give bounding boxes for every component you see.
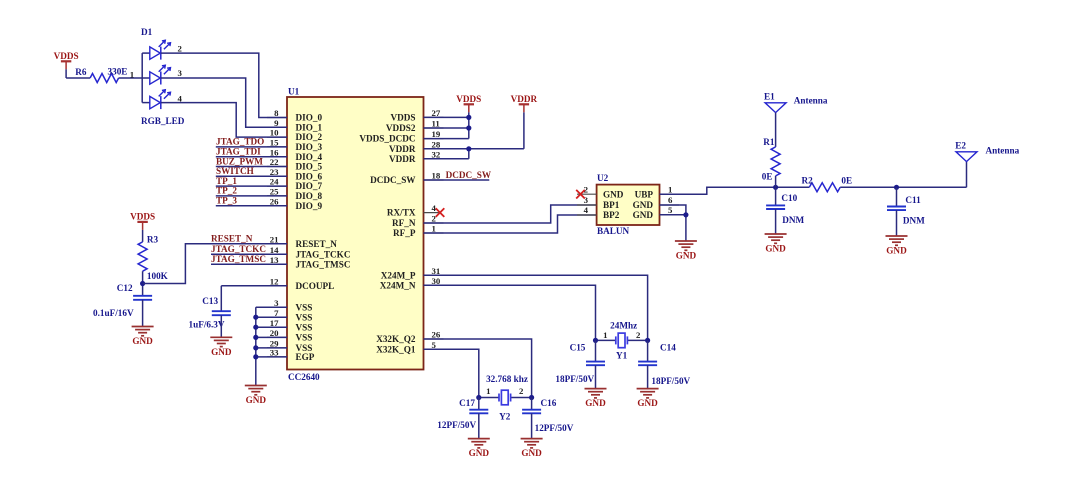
node VSS junction y347 — [253, 345, 258, 350]
svg-text:9: 9 — [274, 118, 279, 128]
capacitor C17 — [469, 410, 488, 414]
LED D1 element 2 — [150, 65, 171, 84]
wire X32K_Q2 to Y2 pin2 — [424, 339, 532, 398]
svg-text:3: 3 — [274, 298, 279, 308]
svg-text:RESET_N: RESET_N — [211, 234, 253, 244]
LED D1 element 1 — [150, 40, 171, 59]
wire C13 to ground — [220, 315, 222, 337]
node Y1 pin2 junction — [645, 338, 650, 343]
ground (C14) — [637, 389, 659, 409]
U1 pin 28 VDDR — [389, 139, 444, 154]
svg-text:VDDS: VDDS — [54, 51, 79, 61]
svg-text:RESET_N: RESET_N — [296, 239, 338, 249]
svg-text:1: 1 — [603, 330, 607, 340]
svg-text:1uF/6.3V: 1uF/6.3V — [189, 320, 225, 330]
U1 pin 18 DCDC_SW — [370, 171, 443, 186]
wire R3 to C12 junction — [142, 271, 144, 296]
node Y2 pin2 junction — [529, 395, 534, 400]
svg-text:DIO_2: DIO_2 — [296, 132, 323, 142]
wire Y2 row — [479, 397, 532, 399]
svg-text:28: 28 — [432, 139, 441, 149]
svg-text:8: 8 — [274, 108, 279, 118]
ground (C15) — [585, 389, 607, 409]
svg-text:23: 23 — [270, 167, 279, 177]
crystal Y2 32.768kHz — [499, 390, 511, 405]
svg-text:2: 2 — [519, 386, 524, 396]
node VDDS junction pin11 — [466, 125, 471, 130]
E1 labels — [764, 92, 828, 106]
svg-text:UBP: UBP — [635, 189, 654, 199]
U2 pin 6 GND — [633, 195, 679, 210]
svg-text:18PF/50V: 18PF/50V — [651, 376, 690, 386]
wire RF_P to balun BP2 — [424, 215, 597, 233]
node R1/C10 junction — [773, 185, 778, 190]
svg-text:GND: GND — [132, 336, 153, 346]
wire LED3 to DIO_2 — [161, 103, 287, 138]
node U2 pin5 junction — [683, 212, 688, 217]
svg-text:E2: E2 — [955, 141, 966, 151]
svg-text:R3: R3 — [147, 234, 159, 244]
C14 labels — [651, 343, 690, 386]
wire and net label JTAG_TCKC — [211, 244, 287, 254]
wire node to C10 — [775, 187, 777, 205]
svg-text:33: 33 — [270, 348, 279, 358]
U1 pin 33 EGP — [267, 348, 315, 363]
wire E1 to R1 — [775, 113, 777, 147]
svg-text:32: 32 — [432, 149, 441, 159]
svg-text:1: 1 — [432, 224, 436, 234]
U1 pin 5 X32K_Q1 — [376, 340, 443, 355]
svg-text:1: 1 — [668, 184, 672, 194]
node VSS junction y337 — [253, 335, 258, 340]
svg-text:5: 5 — [668, 205, 673, 215]
svg-text:3: 3 — [178, 68, 183, 78]
svg-text:VSS: VSS — [296, 302, 313, 312]
svg-text:DCDC_SW: DCDC_SW — [370, 175, 416, 185]
antenna E2 — [956, 152, 977, 162]
svg-text:VDDR: VDDR — [511, 94, 538, 104]
wire VSS bus — [256, 307, 287, 385]
svg-text:VDDS: VDDS — [456, 94, 481, 104]
C12 labels — [93, 283, 134, 318]
C17 labels — [437, 398, 476, 430]
wire C11 to ground — [896, 210, 898, 236]
wire R1 to node — [775, 176, 777, 187]
wire U2 pin5 to ground — [660, 215, 686, 241]
wire and net label TP_3 — [216, 196, 287, 206]
svg-text:4: 4 — [584, 205, 589, 215]
wire C10 to ground — [775, 209, 777, 234]
U1 pin 25 DIO_8 — [267, 187, 322, 202]
capacitor C10 — [766, 205, 785, 209]
svg-text:X24M_N: X24M_N — [380, 280, 416, 290]
svg-text:DIO_0: DIO_0 — [296, 113, 323, 123]
wire C16 to ground — [531, 413, 533, 438]
Y1 labels — [610, 321, 637, 361]
svg-text:30: 30 — [432, 276, 441, 286]
svg-text:DNM: DNM — [903, 215, 925, 225]
svg-text:R6: R6 — [75, 67, 87, 77]
svg-text:12PF/50V: 12PF/50V — [437, 420, 476, 430]
resistor R1 — [762, 137, 780, 182]
no-connect X on U2 pin 2 — [576, 190, 585, 199]
svg-text:TP_1: TP_1 — [216, 176, 237, 186]
capacitor C12 — [133, 296, 152, 300]
wire RF node R2 right to E2 — [840, 161, 966, 187]
svg-text:BP1: BP1 — [603, 200, 620, 210]
svg-text:DCOUPL: DCOUPL — [296, 281, 335, 291]
C15 labels — [555, 343, 594, 385]
svg-text:RF_N: RF_N — [392, 218, 416, 228]
svg-text:VDDS: VDDS — [390, 113, 415, 123]
ground (C13) — [210, 337, 232, 357]
node Y2 pin1 junction — [476, 395, 481, 400]
svg-text:DIO_1: DIO_1 — [296, 122, 323, 132]
svg-text:BP2: BP2 — [603, 210, 620, 220]
wire node to C11 — [896, 187, 898, 206]
wire and net label SWITCH — [216, 166, 287, 176]
U1 pin 4 RX/TX — [387, 203, 440, 218]
svg-text:VDDR: VDDR — [389, 144, 416, 154]
svg-text:DIO_4: DIO_4 — [296, 152, 323, 162]
svg-text:DIO_8: DIO_8 — [296, 191, 323, 201]
svg-text:R2: R2 — [802, 176, 814, 186]
wire U2 UBP to RF node — [660, 187, 810, 194]
wire U2 pin6 to pin5 — [660, 205, 686, 215]
wire VDDR rail pins 28/32 — [424, 112, 524, 158]
svg-text:1: 1 — [130, 70, 134, 80]
wire Y1 pin1 to C15 — [595, 340, 597, 361]
U1 pin 3 VSS — [267, 298, 312, 313]
ground (C11) — [886, 236, 908, 256]
U1 pin 1 RF_P — [393, 224, 443, 239]
node R3/C12/RESET_N junction — [140, 281, 145, 286]
svg-text:X32K_Q1: X32K_Q1 — [376, 344, 416, 354]
svg-text:24Mhz: 24Mhz — [610, 321, 637, 331]
node Y1 pin1 junction — [593, 338, 598, 343]
wire C15 to ground — [595, 365, 597, 388]
svg-text:14: 14 — [270, 245, 279, 255]
ground (C17) — [468, 439, 490, 459]
wire C17 to ground — [478, 413, 480, 438]
svg-text:Antenna: Antenna — [986, 145, 1020, 155]
svg-text:GND: GND — [676, 251, 697, 261]
LED D1 element 3 — [150, 90, 171, 109]
svg-text:26: 26 — [432, 330, 441, 340]
U1 pin 12 DCOUPL — [267, 276, 334, 291]
antenna E1 — [765, 103, 786, 113]
Y2 labels — [486, 374, 528, 421]
U1 pin 23 DIO_6 — [267, 167, 322, 182]
wire LED anode bracket — [142, 53, 150, 103]
svg-text:C17: C17 — [459, 398, 475, 408]
ground (VSS) — [245, 386, 267, 406]
svg-text:VDDR: VDDR — [389, 154, 416, 164]
svg-text:11: 11 — [432, 119, 440, 129]
svg-text:U1: U1 — [288, 86, 300, 96]
svg-text:VSS: VSS — [296, 322, 313, 332]
svg-text:DIO_6: DIO_6 — [296, 171, 323, 181]
svg-text:19: 19 — [432, 129, 441, 139]
U1 pin 15 DIO_3 — [267, 138, 322, 153]
wire Y2 pin2 to C16 — [531, 398, 533, 410]
capacitor C13 — [212, 311, 231, 315]
svg-text:JTAG_TDI: JTAG_TDI — [216, 147, 261, 157]
U2 pin 5 GND — [633, 205, 679, 220]
svg-text:0.1uF/16V: 0.1uF/16V — [93, 308, 134, 318]
svg-text:22: 22 — [270, 157, 279, 167]
svg-text:RGB_LED: RGB_LED — [141, 116, 185, 126]
U1 pin 11 VDDS2 — [386, 119, 444, 134]
svg-text:X24M_P: X24M_P — [381, 270, 416, 280]
node VSS junction y356 — [253, 354, 258, 359]
svg-text:C10: C10 — [781, 193, 797, 203]
crystal Y1 24Mhz — [616, 333, 628, 348]
wire Y1 row — [596, 339, 648, 341]
wire R6 to LED anode bracket — [119, 77, 143, 79]
svg-text:DIO_5: DIO_5 — [296, 162, 323, 172]
svg-text:1: 1 — [486, 386, 490, 396]
node VDDR junction pin28 — [466, 146, 471, 151]
svg-text:21: 21 — [270, 234, 279, 244]
svg-text:GND: GND — [633, 200, 654, 210]
U1 pin 24 DIO_7 — [267, 177, 322, 192]
wire Y1 pin2 to C14 — [647, 340, 649, 361]
svg-text:JTAG_TCKC: JTAG_TCKC — [296, 249, 351, 259]
IC U2 BALUN body — [597, 173, 660, 236]
svg-text:100K: 100K — [147, 271, 169, 281]
svg-text:32.768 khz: 32.768 khz — [486, 374, 528, 384]
svg-text:GND: GND — [633, 210, 654, 220]
U1 pin 9 DIO_1 — [267, 118, 322, 132]
svg-text:VSS: VSS — [296, 333, 313, 343]
svg-text:EGP: EGP — [296, 352, 315, 362]
svg-text:0E: 0E — [762, 172, 773, 182]
node VSS junction y327 — [253, 325, 258, 330]
power VDDR — [511, 94, 538, 112]
svg-text:DIO_7: DIO_7 — [296, 181, 323, 191]
svg-text:C12: C12 — [117, 283, 133, 293]
svg-text:12PF/50V: 12PF/50V — [535, 423, 574, 433]
U1 pin 7 VSS — [267, 308, 312, 323]
power VDDS (chip rail) — [456, 94, 481, 112]
svg-text:GND: GND — [521, 448, 542, 458]
U1 pin 19 VDDS_DCDC — [359, 129, 443, 144]
svg-text:6: 6 — [668, 195, 673, 205]
svg-text:SWITCH: SWITCH — [216, 166, 254, 176]
svg-text:15: 15 — [270, 138, 279, 148]
U2 pin 1 UBP — [635, 184, 679, 199]
wire and net label TP_2 — [216, 186, 287, 196]
svg-text:TP_3: TP_3 — [216, 196, 237, 206]
svg-text:JTAG_TCKC: JTAG_TCKC — [211, 244, 266, 254]
svg-text:4: 4 — [178, 93, 183, 103]
svg-text:GND: GND — [211, 347, 232, 357]
power VDDS (R3 branch) — [130, 212, 155, 242]
node VSS junction y317 — [253, 315, 258, 320]
svg-text:R1: R1 — [763, 137, 775, 147]
svg-text:JTAG_TMSC: JTAG_TMSC — [296, 259, 351, 269]
resistor R3 — [138, 234, 169, 280]
svg-text:24: 24 — [270, 177, 279, 187]
svg-text:Y1: Y1 — [616, 350, 628, 360]
wire and net label TP_1 — [216, 176, 287, 186]
C13 labels — [189, 296, 225, 329]
U2 pin 4 BP2 — [577, 205, 620, 220]
C10 labels — [781, 193, 804, 225]
svg-text:27: 27 — [432, 108, 441, 118]
svg-text:C16: C16 — [541, 398, 557, 408]
svg-text:4: 4 — [432, 203, 437, 213]
svg-text:C11: C11 — [905, 195, 921, 205]
wire and net label JTAG_TMSC — [211, 254, 287, 264]
wire X24M_N to Y1 pin1 — [424, 285, 596, 340]
svg-text:13: 13 — [270, 255, 279, 265]
node VDDS junction pin27 — [466, 115, 471, 120]
svg-text:17: 17 — [270, 318, 279, 328]
diode D1 RGB_LED labels — [141, 27, 185, 126]
svg-text:CC2640: CC2640 — [288, 372, 320, 382]
svg-text:0E: 0E — [841, 176, 852, 186]
svg-text:25: 25 — [270, 187, 279, 197]
U1 pin 26 DIO_9 — [267, 196, 322, 211]
capacitor C14 — [638, 362, 657, 366]
svg-text:2: 2 — [432, 214, 437, 224]
svg-text:3: 3 — [584, 195, 589, 205]
svg-text:DIO_9: DIO_9 — [296, 201, 323, 211]
svg-text:VSS: VSS — [296, 312, 313, 322]
U1 pin 2 RF_N — [392, 214, 443, 229]
wire and net label JTAG_TDO — [216, 137, 287, 147]
wire C12 to ground — [142, 300, 144, 327]
svg-text:26: 26 — [270, 196, 279, 206]
svg-text:GND: GND — [246, 395, 267, 405]
wire Y2 pin1 to C17 — [478, 398, 480, 410]
node C11 junction — [894, 185, 899, 190]
svg-text:7: 7 — [274, 308, 279, 318]
svg-text:GND: GND — [765, 244, 786, 254]
wire and net label BUZ_PWM — [216, 156, 287, 166]
wire LED2 to DIO_1 — [161, 78, 287, 127]
U1 pin 26 X32K_Q2 — [376, 330, 443, 345]
U1 pin 29 VSS — [267, 339, 312, 354]
wire and net label JTAG_TDI — [216, 147, 287, 157]
svg-text:C15: C15 — [570, 343, 586, 353]
svg-text:BALUN: BALUN — [597, 226, 630, 236]
svg-text:TP_2: TP_2 — [216, 186, 237, 196]
svg-text:2: 2 — [636, 330, 641, 340]
no-connect X on RX/TX — [436, 208, 445, 217]
svg-text:Y2: Y2 — [499, 411, 511, 421]
svg-text:GND: GND — [886, 246, 907, 256]
U1 pin 30 X24M_N — [380, 276, 444, 291]
svg-text:DCDC_SW: DCDC_SW — [446, 170, 492, 180]
svg-text:330E: 330E — [108, 67, 128, 77]
svg-text:DIO_3: DIO_3 — [296, 142, 323, 152]
C11 labels — [903, 195, 925, 225]
C16 labels — [535, 398, 574, 433]
U1 pin 10 DIO_2 — [267, 128, 322, 143]
U1 pin 32 VDDR — [389, 149, 444, 164]
wire VDDS to R6 — [66, 77, 90, 79]
svg-text:10: 10 — [270, 128, 279, 138]
U2 pin 3 BP1 — [577, 195, 620, 210]
svg-text:18: 18 — [432, 171, 441, 181]
capacitor C11 — [887, 207, 906, 211]
wire LED1 to DIO_0 — [161, 53, 287, 117]
svg-text:31: 31 — [432, 266, 441, 276]
U1 pin 22 DIO_5 — [267, 157, 322, 172]
U1 pin 27 VDDS — [390, 108, 443, 123]
svg-text:GND: GND — [585, 398, 606, 408]
svg-text:X32K_Q2: X32K_Q2 — [376, 334, 416, 344]
svg-text:JTAG_TDO: JTAG_TDO — [216, 137, 264, 147]
svg-text:RX/TX: RX/TX — [387, 208, 416, 218]
U1 pin 8 DIO_0 — [267, 108, 322, 123]
wire junction to RESET_N — [143, 244, 287, 284]
wire and net label DCDC_SW — [424, 170, 492, 180]
ground (C10) — [765, 234, 787, 254]
svg-text:VDDS2: VDDS2 — [386, 123, 416, 133]
ground (U2) — [675, 241, 697, 261]
U1 pin 16 DIO_4 — [267, 147, 322, 162]
svg-text:12: 12 — [270, 276, 279, 286]
svg-text:2: 2 — [178, 43, 183, 53]
wire RF_N to balun BP1 — [424, 205, 597, 223]
wire X24M_P to Y1 pin2 — [424, 275, 648, 340]
resistor R2 — [802, 176, 853, 192]
svg-text:GND: GND — [637, 398, 658, 408]
E2 labels — [955, 141, 1019, 156]
svg-text:2: 2 — [584, 184, 589, 194]
svg-text:VDDS_DCDC: VDDS_DCDC — [359, 134, 415, 144]
U1 pin 31 X24M_P — [381, 266, 444, 281]
U1 pin 21 RESET_N — [267, 234, 337, 249]
svg-text:5: 5 — [432, 340, 437, 350]
capacitor C16 — [522, 410, 541, 414]
resistor R6 — [75, 67, 127, 83]
U1 pin 13 JTAG_TMSC — [267, 255, 350, 270]
svg-text:GND: GND — [469, 448, 490, 458]
wire C14 to ground — [647, 365, 649, 388]
svg-text:BUZ_PWM: BUZ_PWM — [216, 156, 263, 166]
svg-text:U2: U2 — [597, 173, 609, 183]
svg-text:JTAG_TMSC: JTAG_TMSC — [211, 254, 266, 264]
ground (C16) — [521, 439, 543, 459]
svg-text:C13: C13 — [202, 296, 218, 306]
capacitor C15 — [586, 362, 605, 366]
wire VDDS rail pins 27/11/19 — [424, 112, 469, 138]
svg-text:Antenna: Antenna — [794, 96, 828, 106]
svg-text:RF_P: RF_P — [393, 228, 416, 238]
U1 pin 14 JTAG_TCKC — [267, 245, 350, 260]
power VDDS (top left) — [54, 51, 79, 78]
svg-text:18PF/50V: 18PF/50V — [555, 374, 594, 384]
svg-text:D1: D1 — [141, 27, 153, 37]
U1 pin 20 VSS — [267, 328, 312, 343]
svg-text:20: 20 — [270, 328, 279, 338]
U1 pin 17 VSS — [267, 318, 312, 333]
wire DCOUPL to C13 — [221, 286, 287, 311]
svg-text:VDDS: VDDS — [130, 212, 155, 222]
IC U1 CC2640 body — [287, 86, 424, 382]
U2 pin 2 GND — [577, 184, 624, 199]
wire X32K_Q1 to Y2 pin1 — [424, 349, 479, 397]
svg-text:C14: C14 — [660, 343, 676, 353]
svg-text:16: 16 — [270, 147, 279, 157]
ground (C12) — [132, 327, 154, 347]
svg-text:GND: GND — [603, 189, 624, 199]
